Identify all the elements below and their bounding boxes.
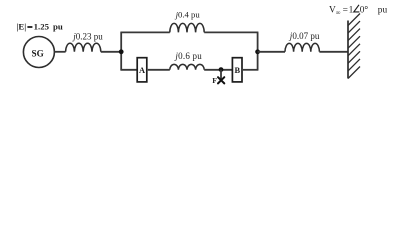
bottom branch wire left: [120, 69, 137, 71]
svg-text:1.25: 1.25: [34, 21, 50, 31]
svg-text:V∞: V∞: [329, 6, 341, 17]
svg-text:|E|: |E|: [16, 21, 26, 31]
svg-text:=: =: [343, 6, 348, 16]
svg-text:pu: pu: [53, 21, 63, 31]
inductor j0.23: [66, 43, 101, 52]
wire inductor j0.07 to infinite bus: [319, 51, 348, 53]
fault X symbol: [218, 77, 224, 83]
wire box B to right bus node: [243, 69, 258, 71]
node F junction dot: [219, 67, 224, 72]
wire right node to inductor j0.07: [258, 51, 285, 53]
node junction dot right: [255, 49, 260, 54]
svg-text:pu: pu: [378, 6, 388, 16]
wire generator to inductor j0.23: [54, 51, 65, 53]
svg-text:A: A: [139, 66, 145, 75]
right branch vertical wire: [257, 32, 259, 69]
generator SG: [23, 37, 54, 68]
top branch wire left: [120, 31, 169, 33]
svg-text:F: F: [212, 76, 217, 85]
svg-text:B: B: [235, 66, 241, 75]
wire box A to inductor j0.6: [148, 69, 170, 71]
svg-text:SG: SG: [31, 49, 43, 59]
left branch vertical wire: [120, 32, 122, 69]
wire inductor j0.6 to fault node: [204, 69, 232, 71]
fault stub wire: [220, 70, 222, 80]
svg-text:j0.23 pu: j0.23 pu: [72, 31, 103, 41]
box B: [232, 58, 242, 82]
svg-text:1: 1: [349, 6, 354, 16]
svg-text:j0.4 pu: j0.4 pu: [175, 9, 201, 19]
wire inductor j0.23 to left bus node: [101, 51, 121, 53]
infinite bus bar: [347, 21, 349, 79]
svg-text:j0.6 pu: j0.6 pu: [174, 51, 202, 61]
inductor j0.6: [170, 64, 204, 69]
node junction dot left: [119, 49, 124, 54]
svg-text:0°: 0°: [360, 5, 369, 16]
top branch wire right: [204, 31, 258, 33]
infinite bus hatching: [348, 14, 360, 79]
box A: [137, 58, 147, 82]
svg-text:j0.07 pu: j0.07 pu: [289, 31, 320, 41]
inductor j0.4: [170, 23, 204, 32]
angle symbol: [354, 5, 360, 12]
inductor j0.07: [285, 43, 319, 51]
